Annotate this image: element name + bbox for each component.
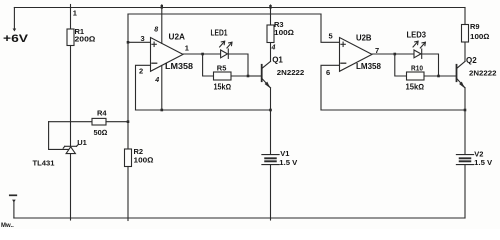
wire reference column — [127, 14, 129, 149]
wire V1 to ground rail — [270, 165, 272, 220]
svg-text:V1: V1 — [280, 149, 289, 158]
svg-text:1: 1 — [185, 44, 189, 53]
wire R10 branch — [395, 54, 439, 76]
svg-text:100Ω: 100Ω — [274, 28, 294, 37]
wire Q2 emitter to V2 — [464, 88, 466, 154]
wire Q1 emitter to V1 — [270, 88, 272, 154]
U2A minus sign — [152, 62, 157, 64]
transistor Q1 — [262, 61, 271, 88]
node junction LED1 left — [201, 53, 204, 56]
svg-text:4: 4 — [271, 45, 276, 52]
svg-text:15kΩ: 15kΩ — [406, 83, 425, 92]
svg-text:1: 1 — [73, 8, 77, 17]
svg-text:R4: R4 — [97, 109, 107, 118]
node junction wireA/emitter — [269, 109, 272, 112]
U1 TL431 — [63, 145, 78, 154]
svg-text:LM358: LM358 — [165, 62, 194, 71]
wire pin2/pin4 to Q1 emitter node — [136, 109, 271, 111]
svg-text:R5: R5 — [217, 64, 227, 73]
svg-text:R10: R10 — [411, 64, 423, 73]
node junction pin4/wireA — [161, 109, 164, 112]
wire R4 right — [106, 121, 128, 123]
svg-text:2N2222: 2N2222 — [277, 68, 305, 77]
svg-text:100Ω: 100Ω — [134, 155, 154, 164]
svg-text:6: 6 — [326, 68, 330, 77]
wire U2A output pin1 — [183, 53, 203, 55]
wire R2 to ground rail — [127, 167, 129, 221]
ground terminal — [13, 201, 15, 219]
wire U2B pin6 input — [321, 65, 340, 110]
wire op-amp pin3 input — [128, 41, 151, 43]
svg-text:50Ω: 50Ω — [94, 128, 108, 137]
wire R5 branch — [203, 54, 248, 76]
wire R1 to TL431 — [70, 46, 72, 147]
wire LED3 branch top — [395, 54, 439, 76]
svg-text:1.5 V: 1.5 V — [279, 158, 297, 167]
wire op-amp pin5 input — [321, 14, 340, 42]
svg-text:+6V: +6V — [3, 33, 29, 45]
wire top +6V rail — [14, 7, 465, 9]
U2B plus sign — [341, 42, 345, 46]
svg-text:LM358: LM358 — [356, 62, 382, 71]
svg-text:100Ω: 100Ω — [470, 32, 490, 41]
wire R3 top to rail — [270, 5, 272, 25]
svg-text:15kΩ: 15kΩ — [214, 83, 232, 92]
op-amp U2A — [151, 38, 184, 72]
ground minus bar — [10, 194, 16, 196]
node junction pin3 — [127, 41, 130, 44]
svg-text:5: 5 — [329, 32, 333, 41]
wire U2A pin8 power — [161, 5, 163, 44]
node junction LED3 left — [394, 53, 397, 56]
resistor R1 — [67, 29, 74, 46]
svg-text:TL431: TL431 — [33, 159, 55, 168]
svg-text:200Ω: 200Ω — [75, 35, 96, 44]
node junction R4/column — [127, 120, 130, 123]
wire R4 left — [49, 121, 92, 123]
svg-text:3: 3 — [141, 34, 145, 43]
wire pin6 to Q2 emitter node — [321, 109, 465, 111]
node A terminal dot — [13, 29, 17, 32]
svg-text:Q1: Q1 — [272, 56, 283, 65]
svg-text:1.5 V: 1.5 V — [474, 158, 492, 167]
wire rail corner to R9 — [464, 8, 466, 25]
svg-text:2: 2 — [139, 67, 143, 76]
resistor R4 — [92, 118, 106, 125]
battery V1 — [262, 155, 279, 165]
svg-text:7: 7 — [375, 46, 379, 55]
LED3 — [413, 41, 425, 58]
resistor R3 — [267, 25, 274, 43]
svg-text:LED3: LED3 — [407, 31, 427, 40]
wire ground rail — [14, 217, 465, 219]
wire LED1 branch top — [203, 54, 248, 76]
node junction pin8/rail — [161, 5, 163, 9]
resistor R10 — [407, 72, 425, 80]
svg-text:8: 8 — [154, 27, 158, 34]
wire R1 column top — [70, 8, 72, 30]
wire U2B output pin7 — [372, 53, 395, 55]
node 1 tick on rail — [70, 5, 72, 9]
wire U2A pin4 power — [161, 66, 163, 111]
wire TL431 anode down — [70, 154, 72, 220]
wire Q1 base — [248, 75, 261, 77]
U2B minus sign — [341, 62, 346, 64]
op-amp U2B — [340, 38, 373, 72]
+6V terminal — [13, 8, 15, 30]
node junction pin6/emitter — [464, 109, 467, 112]
U2A plus sign — [152, 42, 156, 46]
svg-text:LED1: LED1 — [211, 28, 228, 37]
svg-text:U2A: U2A — [169, 33, 186, 42]
svg-text:4: 4 — [154, 77, 159, 84]
wire Q1 collector to R3 — [270, 43, 272, 62]
svg-text:R9: R9 — [470, 22, 480, 31]
svg-text:Mw..: Mw.. — [1, 223, 14, 229]
wire Q2 base — [439, 75, 457, 77]
LED1 — [220, 41, 232, 58]
resistor R9 — [462, 25, 469, 43]
svg-text:U2B: U2B — [356, 33, 372, 42]
svg-text:Q2: Q2 — [466, 56, 477, 65]
wire V2 to ground rail — [464, 165, 466, 218]
resistor R2 — [125, 149, 132, 167]
node junction R5 right — [247, 75, 250, 78]
node junction R10 right — [437, 75, 440, 78]
svg-text:2N2222: 2N2222 — [469, 69, 497, 78]
svg-text:U1: U1 — [77, 138, 87, 147]
wire U2A pin2 input — [136, 65, 151, 110]
battery V2 — [456, 155, 473, 165]
node junction R3/rail — [269, 5, 271, 9]
resistor R5 — [214, 72, 232, 80]
transistor Q2 — [457, 61, 466, 88]
wire Q2 collector to R9 — [464, 42, 466, 61]
wire reference top run — [128, 13, 321, 15]
ground terminal dot — [12, 200, 16, 203]
wire TL431 ref loop — [49, 122, 69, 150]
